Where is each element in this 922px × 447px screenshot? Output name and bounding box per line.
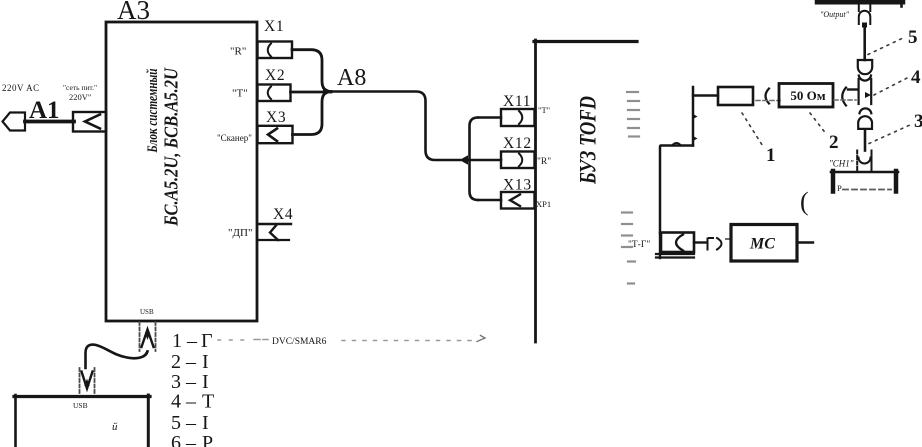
- svg-text:"СН1": "СН1": [829, 159, 854, 169]
- svg-text:A1: A1: [29, 97, 60, 124]
- svg-text:I: I: [202, 412, 209, 434]
- svg-text:3: 3: [914, 111, 922, 132]
- svg-text:4: 4: [911, 67, 921, 88]
- svg-text:XP1: XP1: [536, 199, 551, 209]
- svg-text:5 –: 5 –: [171, 412, 197, 434]
- svg-text:Р: Р: [837, 183, 842, 193]
- svg-text:DVC/SMAR6: DVC/SMAR6: [272, 337, 327, 347]
- svg-text:X11: X11: [503, 93, 531, 110]
- svg-text:2: 2: [829, 132, 839, 153]
- svg-text:X1: X1: [264, 18, 284, 35]
- svg-text:"Output": "Output": [820, 10, 850, 19]
- svg-text:X3: X3: [266, 109, 286, 126]
- svg-text:X2: X2: [265, 67, 285, 84]
- svg-text:220V": 220V": [69, 92, 91, 102]
- svg-text:A8: A8: [337, 65, 366, 91]
- svg-text:I: I: [202, 351, 209, 373]
- svg-text:"Сканер": "Сканер": [217, 133, 252, 143]
- svg-text:USB: USB: [140, 308, 154, 316]
- svg-text:X4: X4: [273, 206, 293, 223]
- svg-text:2 –: 2 –: [171, 351, 197, 373]
- svg-text:220V AC: 220V AC: [2, 83, 40, 93]
- svg-text:Г: Г: [201, 330, 213, 352]
- svg-text:Т: Т: [202, 391, 214, 413]
- svg-text:"R": "R": [230, 46, 246, 58]
- svg-text:БУЗ TOFD: БУЗ TOFD: [576, 96, 601, 185]
- svg-text:1 –: 1 –: [172, 330, 198, 352]
- svg-text:Р: Р: [202, 432, 213, 447]
- svg-text:X13: X13: [503, 177, 532, 194]
- svg-text:USB: USB: [73, 401, 88, 410]
- svg-text:A3: A3: [117, 0, 150, 25]
- svg-text:Блок системный: Блок системный: [145, 69, 161, 154]
- svg-text:МС: МС: [749, 236, 775, 253]
- svg-text:"Т-Г": "Т-Г": [628, 240, 650, 250]
- svg-text:"сеть пит.": "сеть пит.": [63, 83, 97, 92]
- svg-text:X12: X12: [503, 135, 532, 152]
- svg-text:"T": "T": [538, 105, 550, 115]
- svg-text:й: й: [112, 421, 118, 433]
- svg-text:(: (: [800, 187, 809, 216]
- svg-text:"ДП": "ДП": [228, 227, 252, 239]
- svg-text:БС.А5.2U, БСВ.А5.2U: БС.А5.2U, БСВ.А5.2U: [161, 67, 183, 227]
- svg-text:5: 5: [908, 27, 918, 48]
- svg-text:"R": "R": [537, 157, 551, 167]
- svg-text:1: 1: [766, 145, 776, 166]
- svg-text:4 –: 4 –: [171, 391, 197, 413]
- svg-text:"T": "T": [232, 88, 248, 100]
- svg-text:50 Ом: 50 Ом: [790, 88, 825, 103]
- svg-text:6 –: 6 –: [171, 432, 197, 447]
